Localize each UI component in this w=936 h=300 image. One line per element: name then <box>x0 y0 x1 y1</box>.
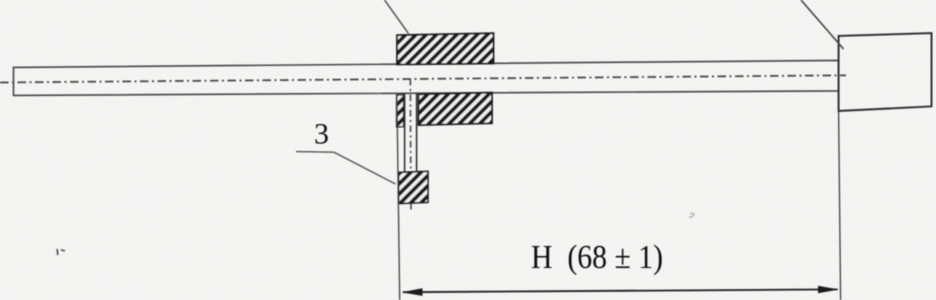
leader line to top hatched block <box>385 0 409 34</box>
horizontal rod body <box>14 60 839 95</box>
leader line to right box <box>801 0 844 49</box>
stray ink speck bottom-left <box>57 249 65 255</box>
wire: horizontal dash-dot centerline of rod <box>0 75 846 82</box>
dimension arrow right <box>818 286 839 294</box>
hatched narrow strip left of vertical rod <box>397 95 404 127</box>
extension line left (from item 3 down) <box>397 95 400 300</box>
hatched block top (clamp upper half) <box>397 33 494 64</box>
hatched block lower main (clamp lower half) <box>419 93 493 126</box>
hatched small block (item 3) <box>399 171 428 203</box>
vertical rod right edge <box>416 94 418 172</box>
stray faint speck near dimension <box>689 213 694 217</box>
dimension arrow left <box>402 288 423 296</box>
vertical rod left edge <box>404 94 406 172</box>
dimension line H with arrows <box>403 289 838 292</box>
svg-text:3: 3 <box>314 118 329 151</box>
wire: vertical dash-dot centerline of lower rod <box>409 79 412 210</box>
svg-text:H (68 ± 1): H (68 ± 1) <box>531 239 663 276</box>
leader line of label 3 <box>296 152 396 184</box>
extension line right (from box down) <box>839 111 841 300</box>
box at right end of rod <box>839 33 932 111</box>
